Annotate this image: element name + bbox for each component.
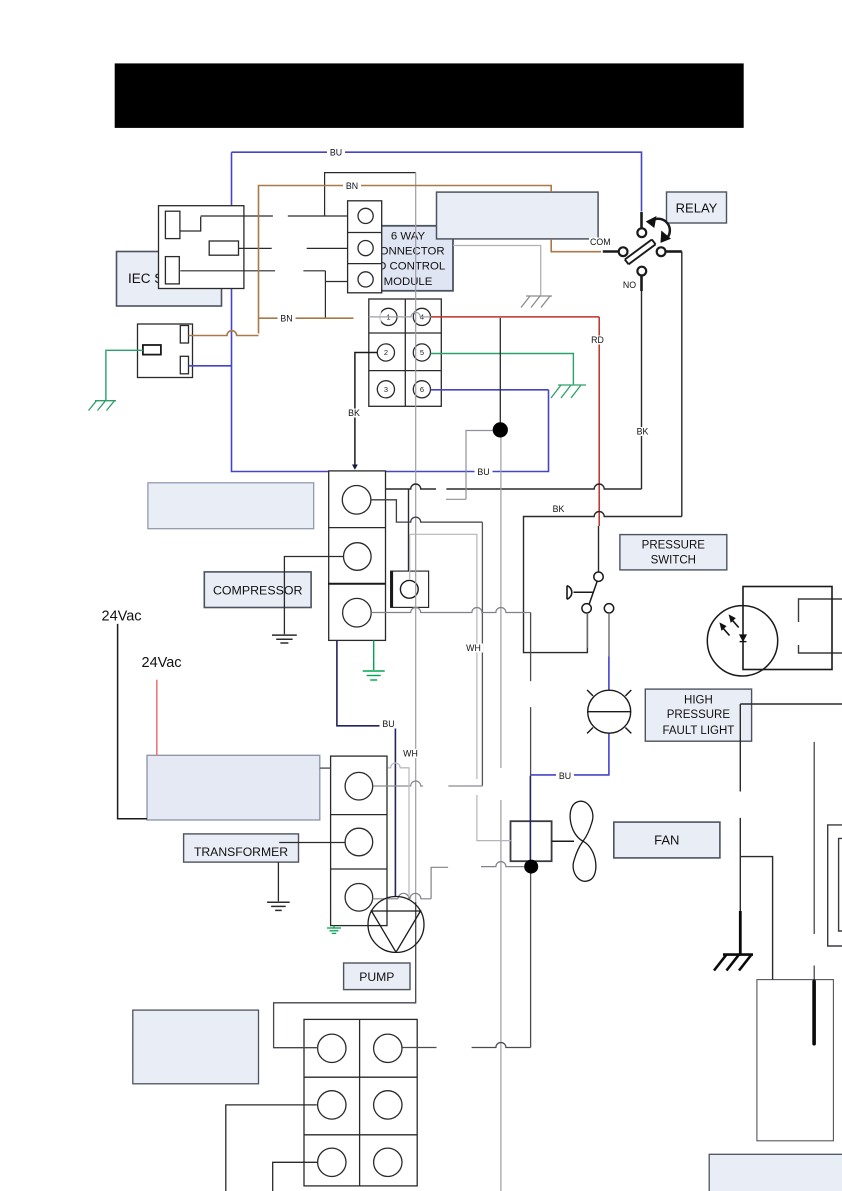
svg-text:3: 3 — [384, 385, 388, 394]
svg-text:FAN: FAN — [654, 833, 679, 848]
svg-text:BU: BU — [559, 771, 571, 781]
svg-text:6: 6 — [420, 385, 424, 394]
svg-text:NO: NO — [623, 280, 636, 290]
svg-text:TRANSFORMER: TRANSFORMER — [194, 845, 288, 859]
svg-text:BK: BK — [348, 408, 360, 418]
svg-text:BU: BU — [477, 467, 489, 477]
svg-text:HIGH: HIGH — [684, 695, 713, 707]
svg-text:BU: BU — [382, 719, 394, 729]
svg-text:COMPRESSOR: COMPRESSOR — [213, 584, 303, 598]
svg-text:5: 5 — [420, 348, 424, 357]
svg-text:PRESSURE: PRESSURE — [667, 709, 731, 721]
svg-text:RD: RD — [591, 335, 604, 345]
svg-text:6 WAY: 6 WAY — [391, 230, 426, 242]
svg-text:PRESSURE: PRESSURE — [642, 540, 706, 552]
svg-text:CONNECTOR: CONNECTOR — [371, 246, 444, 258]
svg-text:BK: BK — [553, 504, 565, 514]
svg-text:SWITCH: SWITCH — [651, 555, 696, 567]
svg-text:BK: BK — [637, 427, 649, 437]
svg-text:BN: BN — [280, 314, 292, 324]
svg-text:2: 2 — [384, 348, 388, 357]
svg-text:PUMP: PUMP — [359, 970, 394, 984]
svg-text:COM: COM — [590, 237, 611, 247]
svg-text:FAULT LIGHT: FAULT LIGHT — [663, 725, 735, 737]
svg-text:BU: BU — [330, 148, 342, 158]
svg-text:WH: WH — [403, 749, 418, 759]
svg-text:24Vac: 24Vac — [142, 655, 182, 671]
svg-text:RELAY: RELAY — [676, 201, 718, 216]
svg-text:WH: WH — [466, 643, 481, 653]
svg-text:MODULE: MODULE — [384, 276, 433, 288]
svg-text:24Vac: 24Vac — [102, 609, 142, 625]
svg-text:BN: BN — [346, 181, 358, 191]
